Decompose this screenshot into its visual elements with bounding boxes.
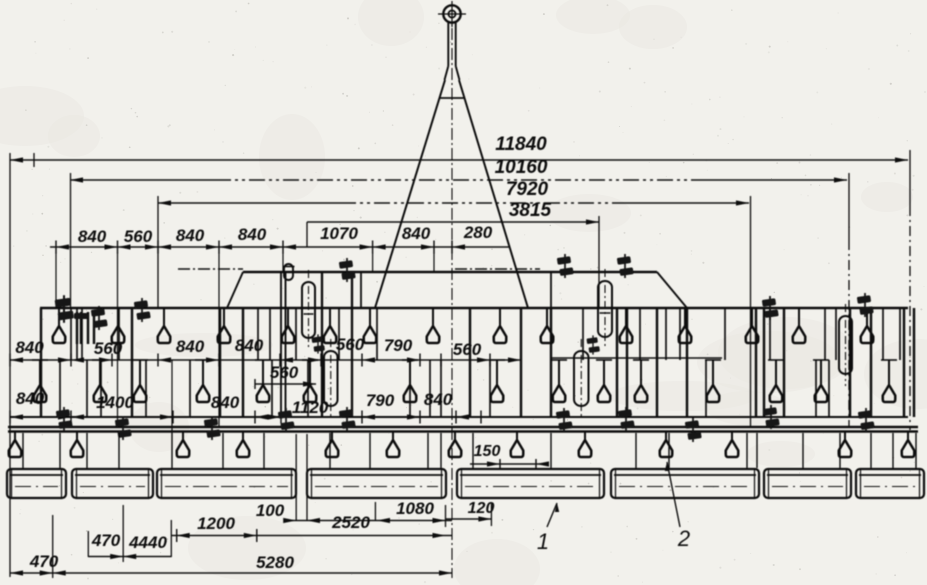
wheel capsule center lower: [324, 351, 338, 406]
svg-text:150: 150: [474, 443, 501, 460]
svg-text:280: 280: [463, 223, 493, 242]
middle tine row: [32, 359, 48, 361]
hitch shaft: [447, 22, 449, 66]
raised frame top: [243, 271, 657, 274]
chain extension lines down: [55, 253, 57, 309]
svg-text:840: 840: [176, 226, 205, 245]
raised frame left diagonal: [227, 272, 243, 308]
svg-text:560: 560: [336, 335, 365, 354]
svg-text:470: 470: [29, 552, 59, 571]
svg-text:840: 840: [15, 338, 44, 357]
svg-text:120: 120: [468, 500, 495, 517]
svg-text:7920: 7920: [506, 179, 549, 200]
raised frame verticals: [360, 272, 362, 308]
svg-text:560: 560: [124, 227, 153, 246]
svg-text:840: 840: [235, 336, 264, 355]
frame lower rail y417: [10, 416, 908, 418]
drawbar triangle right leg: [459, 80, 528, 308]
svg-text:1070: 1070: [320, 224, 358, 243]
dimension 11840: [10, 159, 908, 161]
svg-text:4440: 4440: [128, 533, 167, 552]
svg-text:840: 840: [211, 393, 240, 412]
dimension 10160: [70, 179, 215, 181]
svg-text:100: 100: [256, 501, 285, 520]
svg-text:560: 560: [453, 340, 482, 359]
extension bracket left 3815: [306, 222, 308, 247]
raised frame right diagonal: [657, 272, 687, 308]
wheel capsule center upper: [302, 282, 315, 338]
svg-text:10160: 10160: [495, 157, 548, 178]
dim 470 line y556: [88, 556, 171, 558]
svg-text:2: 2: [677, 526, 690, 551]
svg-text:840: 840: [238, 225, 267, 244]
extension line right 7920: [750, 196, 752, 428]
extension line left 7920: [157, 196, 159, 309]
roller 5: [457, 469, 604, 498]
svg-text:840: 840: [78, 227, 107, 246]
lower dimension ticks: [9, 411, 11, 424]
svg-text:2520: 2520: [331, 513, 370, 532]
svg-text:3815: 3815: [509, 200, 552, 221]
svg-text:840: 840: [16, 389, 45, 408]
chain dimension line y247: [50, 246, 509, 248]
frame top rail: [40, 307, 908, 310]
wheel capsule far right: [839, 316, 852, 374]
roller 7: [764, 469, 851, 498]
dimension 3815: [307, 221, 599, 223]
svg-text:1200: 1200: [197, 514, 235, 533]
center horizontal dash-dot: [178, 268, 243, 270]
roller hangers: [22, 433, 24, 468]
dim 100 / 2520 / 1080 line y520: [285, 520, 452, 522]
upper tine row: [58, 308, 60, 326]
scan noise: [556, 0, 630, 34]
svg-text:5280: 5280: [256, 553, 294, 572]
svg-text:1080: 1080: [396, 499, 434, 518]
frame section verticals: [40, 308, 42, 417]
extension line right 10160: [848, 173, 850, 240]
roller 2: [72, 469, 153, 498]
dim 470 / 5280 line y573: [10, 572, 452, 574]
frame upper partial verticals: [70, 308, 72, 360]
roller 3: [157, 469, 296, 498]
hitch ring: [443, 5, 460, 22]
roller 8: [856, 469, 924, 498]
wheel capsule right upper: [598, 281, 612, 337]
frame lower partial verticals: [59, 360, 61, 417]
dim 1200 / 4440 line y535: [171, 535, 452, 537]
svg-text:840: 840: [402, 224, 431, 243]
mid dimension line y360: [10, 359, 521, 361]
svg-text:790: 790: [366, 391, 395, 410]
frame bottom rail double: [8, 426, 918, 429]
extension line right 11840: [909, 150, 911, 206]
frame mid rail y358 right: [551, 357, 722, 359]
extension line left 10160: [70, 173, 72, 309]
spring tine comb cluster: [76, 312, 78, 344]
wheel capsule right lower: [574, 351, 589, 406]
clamps: [134, 298, 151, 322]
svg-text:790: 790: [384, 336, 413, 355]
roller 4: [307, 469, 446, 498]
pin on raised frame: [284, 264, 293, 280]
roller 1: [7, 469, 66, 498]
drawbar triangle left leg: [375, 80, 445, 308]
bottom tine row: [14, 431, 16, 440]
svg-text:1: 1: [537, 529, 549, 554]
roller 6: [611, 469, 759, 498]
svg-text:840: 840: [176, 337, 205, 356]
svg-text:470: 470: [91, 531, 121, 550]
svg-text:11840: 11840: [495, 134, 547, 155]
extension line left 11840: [9, 153, 11, 577]
centerline vertical: [451, 28, 453, 578]
extension line right 3815: [598, 216, 600, 309]
dimension 7920: [158, 202, 340, 204]
svg-text:560: 560: [270, 363, 299, 382]
drawbar cross bar: [440, 97, 465, 99]
svg-text:840: 840: [424, 390, 453, 409]
